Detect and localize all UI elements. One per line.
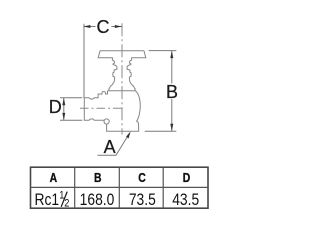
dim B bottom arrowhead (170, 124, 173, 131)
svg-text:C: C (138, 171, 146, 185)
dim B top arrowhead (170, 51, 173, 58)
spigot (left socket) + body left shoulder + boss (84, 91, 107, 121)
table column dividers (75, 167, 164, 208)
dim D bottom extension line (60, 119, 82, 121)
label A leader line (98, 133, 130, 155)
dim B top extension line (149, 50, 177, 52)
drain cap circle (104, 119, 109, 124)
table row divider (31, 186, 209, 188)
label A leader arrowhead (126, 131, 131, 138)
svg-text:Rc1: Rc1 (35, 191, 60, 209)
svg-text:C: C (97, 17, 110, 37)
dim D top arrowhead (62, 98, 65, 105)
dim C right arrowhead (115, 25, 122, 28)
valve body right bulge + bottom face (107, 91, 141, 132)
svg-text:2: 2 (64, 198, 69, 210)
svg-text:D: D (183, 171, 191, 185)
centerline vertical (valve axis) (121, 23, 123, 134)
dim D bottom arrowhead (62, 113, 65, 120)
dim C dimension line (84, 26, 122, 28)
svg-text:A: A (50, 171, 58, 185)
svg-text:168.0: 168.0 (80, 191, 115, 209)
dim D top extension line (60, 97, 82, 99)
dim B dimension line (171, 51, 173, 132)
valve handle + stem + bonnet outline (98, 51, 146, 91)
dim C extension line (left, from spigot face) (83, 24, 85, 98)
table value fraction slash (61, 192, 67, 207)
dim B bottom extension line (145, 130, 177, 132)
centerline horizontal (spigot axis) (80, 107, 125, 109)
valve body top edge (108, 90, 136, 92)
svg-text:73.5: 73.5 (129, 191, 156, 209)
table outer border (31, 167, 209, 208)
dim D dimension line (63, 98, 65, 121)
svg-text:A: A (104, 137, 116, 157)
dim C left arrowhead (83, 25, 90, 28)
svg-text:43.5: 43.5 (172, 191, 199, 209)
svg-text:B: B (94, 171, 102, 185)
svg-text:B: B (166, 82, 178, 102)
svg-text:D: D (49, 97, 62, 117)
